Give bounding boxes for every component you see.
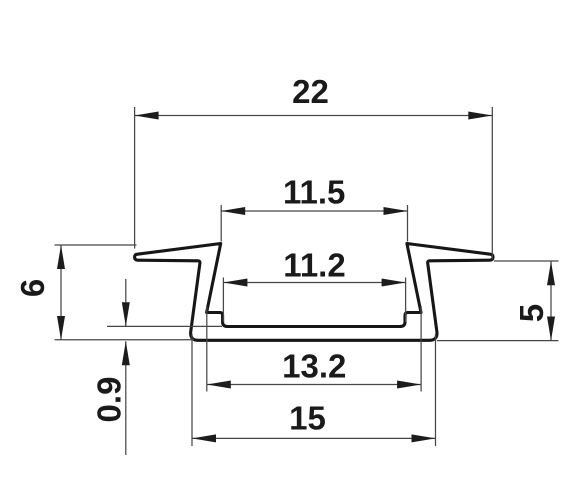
bottom-left extension (6 / 0.9) bbox=[55, 339, 195, 341]
svg-text:0.9: 0.9 bbox=[91, 377, 128, 423]
11.2 dim bbox=[222, 278, 224, 323]
15 arrows bbox=[192, 434, 216, 442]
15 dim bbox=[191, 334, 193, 446]
thin extension / dimension lines bbox=[55, 107, 559, 455]
svg-text:15: 15 bbox=[289, 400, 326, 437]
arrowheads bbox=[57, 112, 555, 443]
11.5 arrows bbox=[221, 207, 245, 215]
13.2 arrows bbox=[207, 381, 231, 389]
5 dim (right) bbox=[494, 260, 559, 262]
svg-text:6: 6 bbox=[14, 279, 51, 297]
22 arrows bbox=[135, 112, 159, 120]
11.5 dim bbox=[220, 205, 222, 242]
11.2 arrows bbox=[223, 279, 247, 287]
13.2 dim bbox=[206, 306, 208, 392]
svg-text:13.2: 13.2 bbox=[282, 348, 346, 385]
5 arrows bbox=[547, 261, 555, 285]
6 dim (left) bbox=[55, 244, 137, 246]
aluminium profile cross-section outline bbox=[135, 244, 493, 341]
svg-text:22: 22 bbox=[292, 73, 329, 110]
22 dim bbox=[134, 107, 136, 249]
0.9 arrows (outside) bbox=[122, 302, 130, 326]
svg-text:11.5: 11.5 bbox=[283, 174, 345, 211]
svg-text:11.2: 11.2 bbox=[283, 247, 345, 284]
0.9 dim (left) bbox=[107, 325, 222, 327]
6 arrows bbox=[57, 245, 65, 269]
svg-text:5: 5 bbox=[513, 304, 550, 322]
